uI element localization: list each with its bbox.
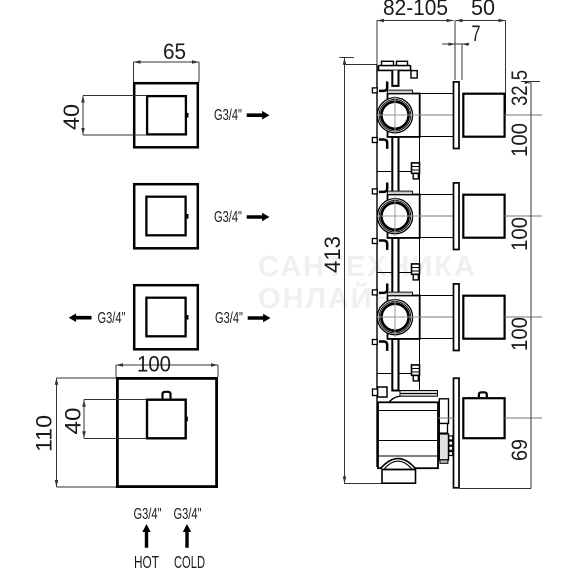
dim 100 front right arrow [211,363,218,367]
svg-text:65: 65 [163,39,186,64]
svg-text:40: 40 [61,408,86,435]
thermostat top gray band [400,391,438,397]
right chain dim line [530,82,532,489]
valve v1 wall tab top [372,88,377,93]
svg-text:COLD: COLD [174,552,205,570]
svg-text:413: 413 [320,236,345,273]
valve v1 gray collar band [388,90,413,93]
dim 65 right extension [198,62,200,82]
valve v1 connecting pipe [392,137,398,195]
handle row1 side view [463,94,504,137]
valve v3 sleeve top line [414,295,454,297]
G3/4 row3 left arrow [69,313,92,322]
dim 40 row4 line [83,400,85,439]
body top cap [379,66,411,71]
valve v2 outlet port [412,264,420,274]
dim 413 bottom arrow [343,476,347,483]
svg-text:50: 50 [471,0,495,20]
cartridge stack upper [439,399,448,424]
valve v1 crosshair vertical [394,96,396,135]
valve v1 sleeve bottom line [414,136,454,138]
plate row4 outer square [117,378,216,486]
cartridge stack lower [439,424,447,434]
valve v1 wall tab bottom [372,138,377,143]
svg-text:HOT: HOT [134,552,159,570]
valve v1 right edge between blocks [419,137,421,195]
dim 110 top extension [57,377,117,379]
valve v1 cartridge outer circle [377,98,412,133]
dim 65 right arrow [192,60,199,64]
outlet foot [382,470,416,484]
dim 50 left arrow [456,19,463,23]
dim 100 front line [116,364,218,366]
valve v3 wall tab top [372,290,377,295]
svg-text:32,5: 32,5 [507,70,532,106]
dim 82-105 line [377,20,454,22]
svg-text:G3/4": G3/4" [214,107,242,124]
valve v1 center line [420,114,454,116]
dim 40 row1 bottom extension [83,134,147,136]
dim 82-105 left extension [376,21,378,65]
dim 413 top arrow [343,58,347,65]
handle row4 center line [438,417,542,419]
dim 110 top arrow [55,378,59,385]
valve v3 clamp hook bottom [379,342,387,351]
valve v3 center line [420,316,454,318]
right chain bottom reference [460,487,531,489]
plate row2 inner square [146,197,185,236]
thermostat body block [378,402,438,468]
valve v3 sleeve bottom line [414,338,454,340]
hot up arrow [142,524,150,548]
handle row2 side view [463,195,504,238]
dim 40 row1 top extension [83,95,147,97]
handle pin nub row3 [185,315,188,320]
dim 82-105 right arrow [447,19,454,23]
valve v2 crosshair vertical [394,197,396,236]
dim 50 right extension [505,21,507,116]
valve v2 crosshair horizontal [377,215,420,217]
thermostat body line upper [378,409,438,411]
valve v3 clamp hook top [379,284,387,293]
svg-text:100: 100 [137,352,171,377]
svg-text:100: 100 [507,123,532,157]
inlet stem valve1 [392,70,398,86]
valve v3 cartridge block [388,296,420,339]
valve v3 crosshair horizontal [377,316,420,318]
dim 413 line [345,58,383,484]
dim 7 right extension [461,44,463,80]
valve v1 sleeve top line [414,93,454,95]
valve v2 sleeve bottom line [414,237,454,239]
thermostat left inlet block [378,387,388,397]
valve v2 outlet port nipple [413,275,418,280]
thermostat left wall tab [373,389,378,396]
valve v2 gray collar band [388,191,413,194]
valve v1 cartridge thread ring [381,102,408,129]
dim 50 left extension [454,21,456,81]
G3/4 row1 arrow [247,111,270,120]
dim 40 row4 top extension [84,399,147,401]
outlet elbow arch outer [381,459,416,469]
svg-text:G3/4": G3/4" [215,310,243,327]
valve v1 cartridge mid circle [379,99,411,131]
handle pin nub row2 [185,214,188,219]
valve v1 outlet port nipple [413,174,418,179]
handle row4 side view [463,398,504,438]
dim 7 right arrow [462,43,469,46]
handle row3 center line tail [505,316,543,318]
thermostat body line lower [378,440,438,456]
body top tab right [397,61,408,65]
handle row3 side view [463,296,504,339]
dim 40 row1 line [82,96,84,136]
dim 100 front left arrow [116,363,123,367]
plate row1 inner square [147,96,186,134]
spindle rib 3 [449,446,453,450]
svg-text:82-105: 82-105 [383,0,448,20]
valve v2 cartridge block [388,195,420,238]
svg-text:69: 69 [507,439,532,461]
valve v1 clamp hook top [379,82,387,91]
dim 7 line [442,43,470,45]
valve v2 wall tab top [372,189,377,194]
valve v3 cartridge thread ring [381,304,408,331]
valve v2 right edge between blocks [419,238,421,296]
svg-text:ОНЛАЙН: ОНЛАЙН [258,281,397,315]
thermostat sloped shoulder [388,396,401,404]
valve v2 cartridge mid circle [379,200,411,232]
dim 50 line [456,20,506,22]
cartridge stack tail [439,434,448,460]
valve v2 connecting pipe [392,238,398,296]
svg-text:G3/4": G3/4" [174,506,202,523]
valve v1 crosshair horizontal [377,114,420,116]
dim 100 front right extension [217,365,219,377]
handle row4 knob [479,392,487,397]
valve v3 cartridge outer circle [377,300,412,335]
svg-text:7: 7 [472,21,481,46]
cartridge stack base [440,460,448,463]
plate row4 inner square [147,400,186,439]
valve v2 cartridge thread ring [381,203,408,230]
valve v1 cartridge block [388,94,420,137]
valve v3 connecting pipe [392,339,398,391]
dim 100 front left extension [115,365,117,377]
valve v1 mid pipe line [378,171,412,173]
svg-text:САНТЕХНИКА: САНТЕХНИКА [258,251,477,283]
handle pin nub row1 [185,113,188,118]
spindle rib 1 [449,436,453,440]
dim 65 line [134,61,200,63]
dim 65 left extension [133,62,135,82]
plate row4 knob [163,392,171,399]
dim 50 right arrow [499,19,506,23]
wall plate bar row1 [454,82,460,149]
spindle rib 4 [449,452,453,456]
svg-text:40: 40 [59,104,84,130]
valve v2 wall tab bottom [372,239,377,244]
dim 82-105 left arrow [377,19,384,23]
wall plate bar row3 [454,284,460,351]
svg-text:G3/4": G3/4" [134,506,162,523]
svg-text:100: 100 [507,217,532,251]
valve v1 clamp hook bottom [379,140,387,149]
body top tab left [382,61,394,65]
dim 40 row4 top arrow [82,400,86,407]
valve v3 outlet port rib [412,368,420,372]
dim 40 row4 bottom arrow [82,431,86,438]
right chain tick plate top [521,81,540,83]
svg-text:G3/4": G3/4" [98,310,126,327]
thermostat top band rib [400,392,438,394]
valve v2 center line [420,215,454,217]
handle pin nub row4 [185,417,188,422]
valve v3 crosshair vertical [394,298,396,337]
dim 413 top tick [340,57,355,59]
valve v3 right edge between blocks [419,339,421,397]
cold up arrow [183,524,191,548]
valve v1 outlet port rib [412,166,420,170]
plate row3 inner square [146,298,185,337]
valve v2 outlet port rib [412,267,420,271]
dim 110 bottom extension [57,486,117,488]
dim 40 row4 bottom extension [84,437,147,439]
handle row1 center line tail [505,114,543,116]
body left wall line [376,64,378,467]
wall plate bar row2 [454,183,460,250]
valve v2 clamp hook bottom [379,241,387,250]
plate row1 outer square [134,83,198,147]
valve v1 outlet port [412,163,420,173]
valve v2 mid pipe line [378,272,412,274]
valve v3 outlet port [412,365,420,375]
valve v2 clamp hook top [379,183,387,192]
plate row3 outer square [134,285,198,349]
svg-text:100: 100 [507,317,532,351]
wall plate bar row4 [454,378,460,488]
G3/4 row2 arrow [247,213,270,222]
svg-text:110: 110 [32,415,57,452]
dim 110 bottom arrow [55,480,59,487]
valve v3 outlet port nipple [413,376,418,381]
valve v3 wall tab bottom [372,340,377,345]
plate row2 outer square [134,184,198,248]
dim 110 line [56,378,58,487]
spindle rib 2 [449,441,453,445]
valve v3 cartridge mid circle [379,301,411,333]
valve v3 gray collar band [388,292,413,295]
body top right lug [411,71,417,78]
valve v2 sleeve top line [414,194,454,196]
handle row2 center line tail [505,215,543,217]
dim 65 left arrow [134,60,141,64]
svg-text:G3/4": G3/4" [214,209,242,226]
dim 7 left arrow [449,43,456,46]
valve v3 mid pipe line [378,373,412,375]
dim 40 row1 top arrow [81,96,85,103]
G3/4 row3 right arrow [248,314,271,323]
outlet elbow arch inner [385,461,412,469]
dim 413 top reference line [345,63,378,65]
valve v2 cartridge outer circle [377,199,412,234]
dim 40 row1 bottom arrow [81,128,85,135]
